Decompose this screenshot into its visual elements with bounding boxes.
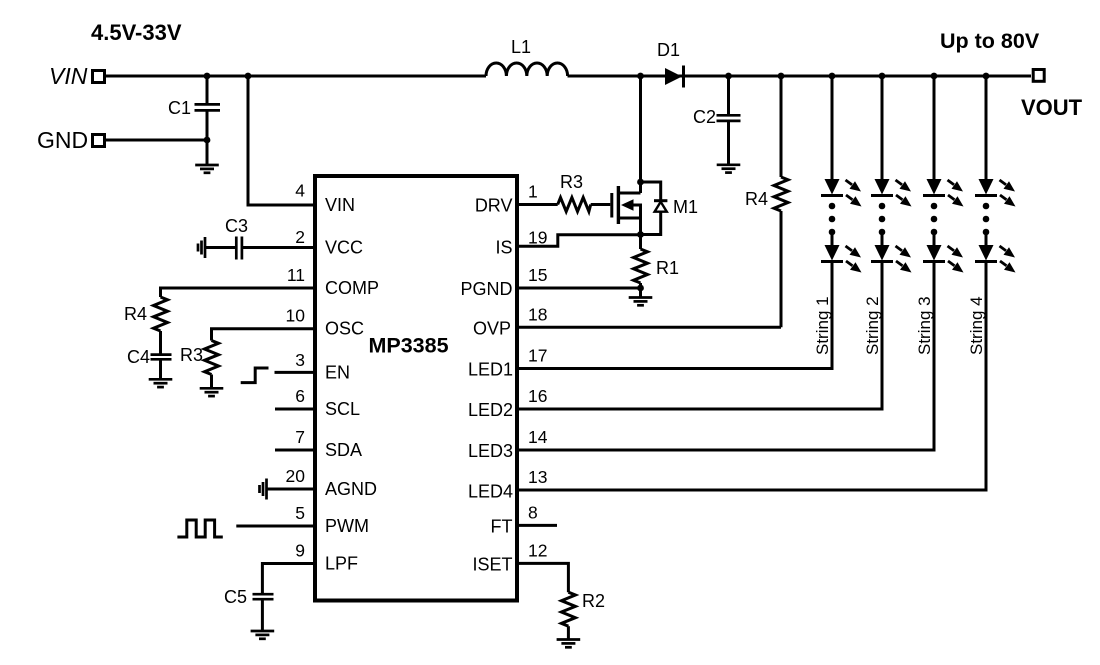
ground below C4: [149, 379, 173, 387]
svg-text:String 4: String 4: [967, 296, 986, 355]
svg-text:1: 1: [528, 182, 538, 202]
pin 20 AGND: [267, 488, 316, 491]
svg-text:LED3: LED3: [468, 441, 513, 461]
svg-text:VCC: VCC: [325, 238, 363, 258]
svg-text:16: 16: [528, 386, 547, 406]
svg-text:LED2: LED2: [468, 400, 513, 420]
svg-text:7: 7: [295, 427, 305, 447]
svg-text:20: 20: [286, 466, 306, 486]
wire GND to C1: [106, 139, 207, 142]
svg-text:4: 4: [295, 181, 305, 201]
pin 5 PWM: [236, 525, 315, 528]
svg-text:R4: R4: [745, 189, 768, 209]
svg-text:LPF: LPF: [325, 554, 358, 574]
pwm square wave symbol: [177, 520, 222, 537]
wire R4 to C4: [159, 331, 162, 354]
capacitor C5: [253, 593, 274, 596]
capacitor C4: [151, 353, 172, 356]
svg-text:String 1: String 1: [813, 296, 832, 355]
svg-text:C1: C1: [168, 98, 191, 118]
capacitor C2: [727, 76, 730, 164]
svg-text:OSC: OSC: [325, 319, 364, 339]
svg-text:MP3385: MP3385: [368, 334, 448, 358]
svg-text:15: 15: [528, 265, 547, 285]
pin 6 SCL: [275, 408, 315, 411]
pin 7 SDA: [275, 449, 315, 452]
svg-text:DRV: DRV: [475, 196, 513, 216]
ground below R1: [629, 298, 653, 306]
svg-text:3: 3: [295, 350, 305, 370]
transistor M1: [612, 186, 641, 235]
enable step symbol: [241, 368, 269, 383]
svg-text:D1: D1: [657, 40, 680, 60]
wire R3 to ground: [210, 375, 213, 388]
svg-text:C4: C4: [127, 347, 150, 367]
diode D1: [665, 68, 682, 85]
svg-text:L1: L1: [511, 37, 531, 57]
svg-text:18: 18: [528, 304, 547, 324]
LED string 2: [517, 76, 882, 409]
svg-text:R4: R4: [124, 304, 147, 324]
svg-text:C3: C3: [225, 216, 248, 236]
ground left of AGND: [260, 479, 267, 500]
svg-text:VOUT: VOUT: [1021, 95, 1083, 120]
svg-text:R2: R2: [582, 591, 605, 611]
wire R3 to gate: [591, 203, 611, 206]
svg-text:4.5V-33V: 4.5V-33V: [91, 20, 182, 45]
ground left of C3: [198, 237, 205, 258]
svg-text:5: 5: [295, 503, 305, 523]
svg-text:SDA: SDA: [325, 440, 362, 460]
svg-text:17: 17: [528, 346, 547, 366]
svg-text:LED4: LED4: [468, 481, 513, 501]
svg-text:PWM: PWM: [325, 516, 369, 536]
capacitor C1: [206, 76, 209, 164]
svg-text:10: 10: [286, 306, 306, 326]
pin 1 DRV: [517, 203, 558, 206]
pin 19 IS: [517, 235, 641, 247]
pin 10 OSC: [212, 329, 316, 341]
svg-text:6: 6: [295, 386, 305, 406]
svg-text:LED1: LED1: [468, 360, 513, 380]
capacitor C3: [235, 237, 238, 260]
svg-text:R1: R1: [656, 258, 679, 278]
ground below R3: [200, 388, 224, 396]
node R1-PGND: [637, 285, 644, 292]
svg-text:13: 13: [528, 467, 547, 487]
pin 2 VCC: [205, 246, 315, 249]
node C1-rail: [204, 73, 211, 80]
node source: [637, 231, 644, 238]
pin 18 OVP: [517, 326, 781, 329]
svg-text:VIN: VIN: [325, 195, 355, 215]
svg-text:EN: EN: [325, 362, 350, 382]
node drain: [637, 179, 644, 186]
ground below C1: [195, 165, 219, 173]
svg-text:19: 19: [528, 228, 547, 248]
svg-text:R3: R3: [180, 345, 203, 365]
terminal VOUT: [1033, 70, 1044, 82]
svg-text:8: 8: [528, 502, 538, 522]
wire rail to pin VIN: [248, 76, 315, 205]
svg-text:String 2: String 2: [863, 296, 882, 355]
svg-text:R3: R3: [560, 172, 583, 192]
ground below R2: [557, 640, 581, 648]
svg-text:M1: M1: [673, 197, 698, 217]
node switch-rail: [637, 73, 644, 80]
svg-text:C2: C2: [693, 107, 716, 127]
resistor R2: [561, 592, 575, 626]
inductor L1: [486, 63, 568, 76]
svg-text:GND: GND: [37, 127, 88, 153]
ground below C2: [717, 165, 741, 173]
node VIN branch: [245, 73, 252, 80]
LED string 1: [517, 76, 832, 369]
svg-text:OVP: OVP: [473, 318, 511, 338]
svg-text:COMP: COMP: [325, 278, 379, 298]
svg-text:14: 14: [528, 427, 548, 447]
pin 8 FT: [517, 524, 557, 527]
node GND-C1: [204, 137, 211, 144]
resistor R4 output: [780, 76, 783, 327]
resistor R3 osc: [205, 341, 219, 375]
pin 12 ISET: [517, 563, 568, 592]
svg-text:PGND: PGND: [460, 279, 512, 299]
svg-text:String 3: String 3: [915, 296, 934, 355]
resistor R1: [639, 235, 642, 250]
svg-text:ISET: ISET: [472, 554, 512, 574]
svg-text:AGND: AGND: [325, 479, 377, 499]
svg-text:2: 2: [295, 227, 305, 247]
wire main VIN rail: [106, 75, 1031, 78]
svg-text:C5: C5: [224, 587, 247, 607]
node R4-rail: [778, 73, 785, 80]
pin 11 COMP: [161, 288, 316, 297]
LED string 4: [517, 76, 986, 490]
ground below C5: [251, 631, 275, 639]
svg-text:12: 12: [528, 540, 547, 560]
pin 3 EN: [275, 371, 316, 374]
svg-text:9: 9: [295, 541, 305, 561]
svg-text:VIN: VIN: [49, 63, 88, 89]
svg-text:FT: FT: [491, 516, 513, 536]
pin 15 PGND: [517, 287, 641, 290]
pin 9 LPF: [262, 564, 315, 594]
body diode of M1: [641, 182, 661, 235]
svg-text:SCL: SCL: [325, 399, 360, 419]
wire switch node: [639, 76, 642, 193]
svg-text:11: 11: [287, 265, 305, 285]
svg-text:IS: IS: [495, 237, 512, 257]
resistor R4 comp: [154, 297, 168, 331]
svg-text:Up to 80V: Up to 80V: [940, 29, 1040, 53]
LED string 3: [517, 76, 934, 450]
node C2-rail: [725, 73, 732, 80]
IC U1 MP3385: [315, 176, 517, 601]
resistor R3 gate: [558, 198, 591, 212]
